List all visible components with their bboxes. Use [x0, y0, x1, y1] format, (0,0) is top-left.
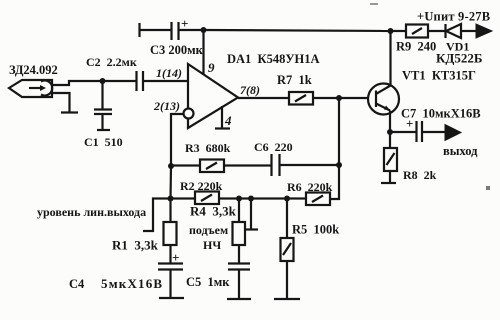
node stub junction: [248, 196, 254, 202]
resistor R6: [306, 193, 330, 206]
wire R2 to R1 node: [171, 197, 196, 199]
wire R3 line left: [171, 164, 200, 166]
inverting input bubble: [184, 109, 194, 119]
label +Uпит 9-27В: [417, 10, 490, 24]
label VD1: [446, 40, 469, 54]
node R5 junction: [284, 196, 290, 202]
pin 4 label: [224, 113, 232, 128]
pin 2(13) label: [153, 99, 180, 113]
label C6 value: [254, 140, 293, 154]
terminal +Uпит arrow: [476, 24, 492, 38]
wire pin 9: [202, 30, 204, 75]
svg-text:+: +: [181, 16, 188, 31]
ground C4: [159, 297, 184, 299]
svg-text:НЧ: НЧ: [203, 238, 221, 252]
scan speck right: [486, 186, 490, 190]
svg-text:4: 4: [224, 113, 232, 128]
wire R6 left to R5 node: [287, 197, 306, 199]
label R1 value: [112, 238, 159, 253]
capacitor C6: [272, 154, 280, 176]
svg-text:C3 200мк: C3 200мк: [150, 43, 204, 57]
wire junction to R2 line: [169, 166, 172, 198]
wire R1 to C4: [169, 245, 171, 263]
svg-text:5мкХ16В: 5мкХ16В: [101, 276, 163, 291]
svg-text:R1 3,3k: R1 3,3k: [112, 238, 159, 253]
svg-text:C5 1мк: C5 1мк: [186, 275, 230, 289]
label C5 value: [186, 275, 230, 289]
svg-text:R3 680k: R3 680k: [185, 141, 231, 155]
node R4 junction: [236, 196, 242, 202]
wire R5 branch: [286, 199, 288, 239]
pin 1(14) label: [156, 66, 182, 80]
wire C2 to op-amp input: [143, 80, 188, 82]
wire R9 to VD1: [428, 30, 446, 32]
svg-text:R5 100k: R5 100k: [292, 223, 339, 237]
wire C5 to ground: [238, 270, 240, 300]
wire stub down: [250, 199, 252, 230]
wire R7 to base node: [313, 97, 339, 99]
ground mic: [61, 111, 78, 113]
label R7 value: [277, 73, 312, 87]
wire supply rail center: [204, 30, 391, 31]
svg-text:подъем: подъем: [189, 223, 228, 237]
capacitor C4: [158, 250, 183, 270]
ground R5: [274, 298, 300, 300]
svg-text:C7 10мкХ16В: C7 10мкХ16В: [401, 107, 481, 121]
label R3 value: [185, 141, 231, 155]
resistor R4: [233, 222, 246, 245]
microphone BM1 ЗД24.092: [9, 80, 52, 97]
node pin9/rail junction: [201, 27, 207, 33]
ground C1: [97, 129, 110, 131]
node collector/rail junction: [388, 28, 394, 34]
svg-text:C2 2.2мк: C2 2.2мк: [86, 55, 137, 69]
wire pin 4: [221, 106, 223, 128]
svg-text:C1 510: C1 510: [84, 135, 123, 149]
svg-text:C6 220: C6 220: [254, 140, 293, 154]
label R9 value: [396, 40, 436, 54]
capacitor C1: [94, 110, 112, 115]
terminal supply-rail left end: [138, 23, 140, 37]
svg-text:1(14): 1(14): [156, 66, 182, 80]
node R7/base junction: [336, 95, 342, 101]
svg-text:КД522Б: КД522Б: [436, 51, 482, 66]
wire R4 to C5: [238, 245, 240, 263]
svg-text:7(8): 7(8): [240, 83, 260, 97]
node R3/feedback junction: [168, 163, 174, 169]
label подъем НЧ: [189, 223, 228, 252]
label C2 value: [86, 55, 137, 69]
label R6 value: [287, 180, 333, 194]
label R8 value: [403, 168, 437, 182]
label C1 value: [84, 135, 123, 149]
wire R5 to ground: [286, 261, 288, 299]
label VD1 type: [436, 51, 482, 66]
wire R3 to C6: [224, 164, 271, 166]
terminal stub end bar: [244, 228, 258, 230]
label выход: [443, 144, 478, 158]
svg-text:R6 220k: R6 220k: [287, 180, 333, 194]
svg-text:VT1 КТ315Г: VT1 КТ315Г: [402, 69, 476, 83]
label C7 value: [401, 107, 481, 121]
wire feedback vertical: [330, 98, 339, 199]
op-amp DA1: [188, 64, 238, 128]
label C4 value: [69, 276, 163, 291]
svg-text:ЗД24.092: ЗД24.092: [9, 63, 58, 77]
capacitor C3: [172, 16, 189, 40]
svg-text:R8 2k: R8 2k: [403, 168, 437, 182]
wire C3 to pin9 node: [179, 29, 204, 31]
svg-text:9: 9: [208, 60, 215, 75]
terminal output arrow: [445, 125, 461, 141]
capacitor C5: [228, 264, 250, 270]
wire emitter: [389, 111, 391, 133]
node feedback vertical junction: [336, 162, 342, 168]
wire R4 branch: [238, 199, 240, 223]
svg-text:+: +: [172, 250, 179, 265]
wire rail to R9: [391, 30, 407, 32]
pin 7(8) label: [240, 83, 260, 97]
resistor R9: [406, 25, 428, 38]
ground R8: [381, 182, 396, 184]
label R2 value: [180, 179, 223, 193]
wire inverting input down: [171, 114, 184, 166]
wire C1 to end bar: [101, 114, 103, 130]
wire R5 node to stub node: [251, 197, 287, 199]
label C3 value: [150, 43, 204, 57]
wire C7 to output arrow: [422, 131, 445, 133]
wire emitter node to R8: [389, 132, 391, 148]
resistor R3: [200, 160, 224, 173]
svg-text:R7 1k: R7 1k: [277, 73, 312, 87]
ground pin 4: [215, 127, 230, 129]
pin 9 label: [208, 60, 215, 75]
wire R4 node to R2: [219, 197, 239, 199]
scan speck top: [370, 3, 378, 5]
wire node to C2: [103, 80, 137, 82]
wire mic bottom terminal to ground: [52, 93, 70, 112]
wire node to R1: [169, 199, 171, 223]
svg-text:R9 240: R9 240: [396, 40, 436, 54]
svg-text:выход: выход: [443, 144, 478, 158]
wire C4 to ground: [169, 270, 171, 299]
wire node to transistor base: [339, 97, 369, 99]
wire mic top terminal to signal line: [52, 81, 102, 85]
wire emitter node to C7: [390, 131, 416, 133]
ground C5: [227, 298, 251, 300]
wire VD1 to supply terminal: [461, 30, 476, 32]
label VT1 type: [402, 69, 476, 83]
wire C6 to feedback node: [280, 164, 340, 166]
wire supply rail left to C3: [140, 29, 172, 31]
capacitor C7: [406, 116, 422, 142]
wire C1 branch: [101, 81, 103, 109]
wire R8 to ground: [389, 171, 391, 183]
label DA1 type: [227, 52, 320, 66]
node emitter junction: [387, 129, 393, 135]
wire stub node to R4 node: [239, 197, 251, 199]
svg-text:R2 220k: R2 220k: [180, 179, 223, 193]
wire line-out tap: [143, 199, 171, 232]
diode VD1: [446, 24, 462, 38]
resistor R1: [164, 222, 177, 245]
svg-text:R4 3,3k: R4 3,3k: [190, 204, 237, 219]
wire op-amp output to R7: [238, 97, 289, 99]
svg-text:уровень лин.выхода: уровень лин.выхода: [37, 205, 146, 219]
svg-text:+Uпит 9-27В: +Uпит 9-27В: [417, 10, 490, 24]
label R4 value: [190, 204, 237, 219]
label R5 value: [292, 223, 339, 237]
resistor R7: [289, 92, 313, 105]
svg-text:C4: C4: [69, 277, 85, 291]
resistor R2: [195, 192, 219, 205]
label ЗД24.092: [9, 63, 58, 77]
node C1 junction: [100, 78, 106, 84]
wire collector: [389, 31, 391, 86]
transistor VT1: [368, 84, 399, 115]
svg-text:2(13): 2(13): [153, 99, 180, 113]
svg-text:DA1 К548УН1А: DA1 К548УН1А: [227, 52, 320, 66]
resistor R5: [281, 238, 294, 261]
capacitor C2: [137, 71, 144, 91]
node R1/R2 junction: [168, 196, 174, 202]
resistor R8: [384, 148, 397, 171]
label уровень лин.выхода: [37, 205, 146, 219]
